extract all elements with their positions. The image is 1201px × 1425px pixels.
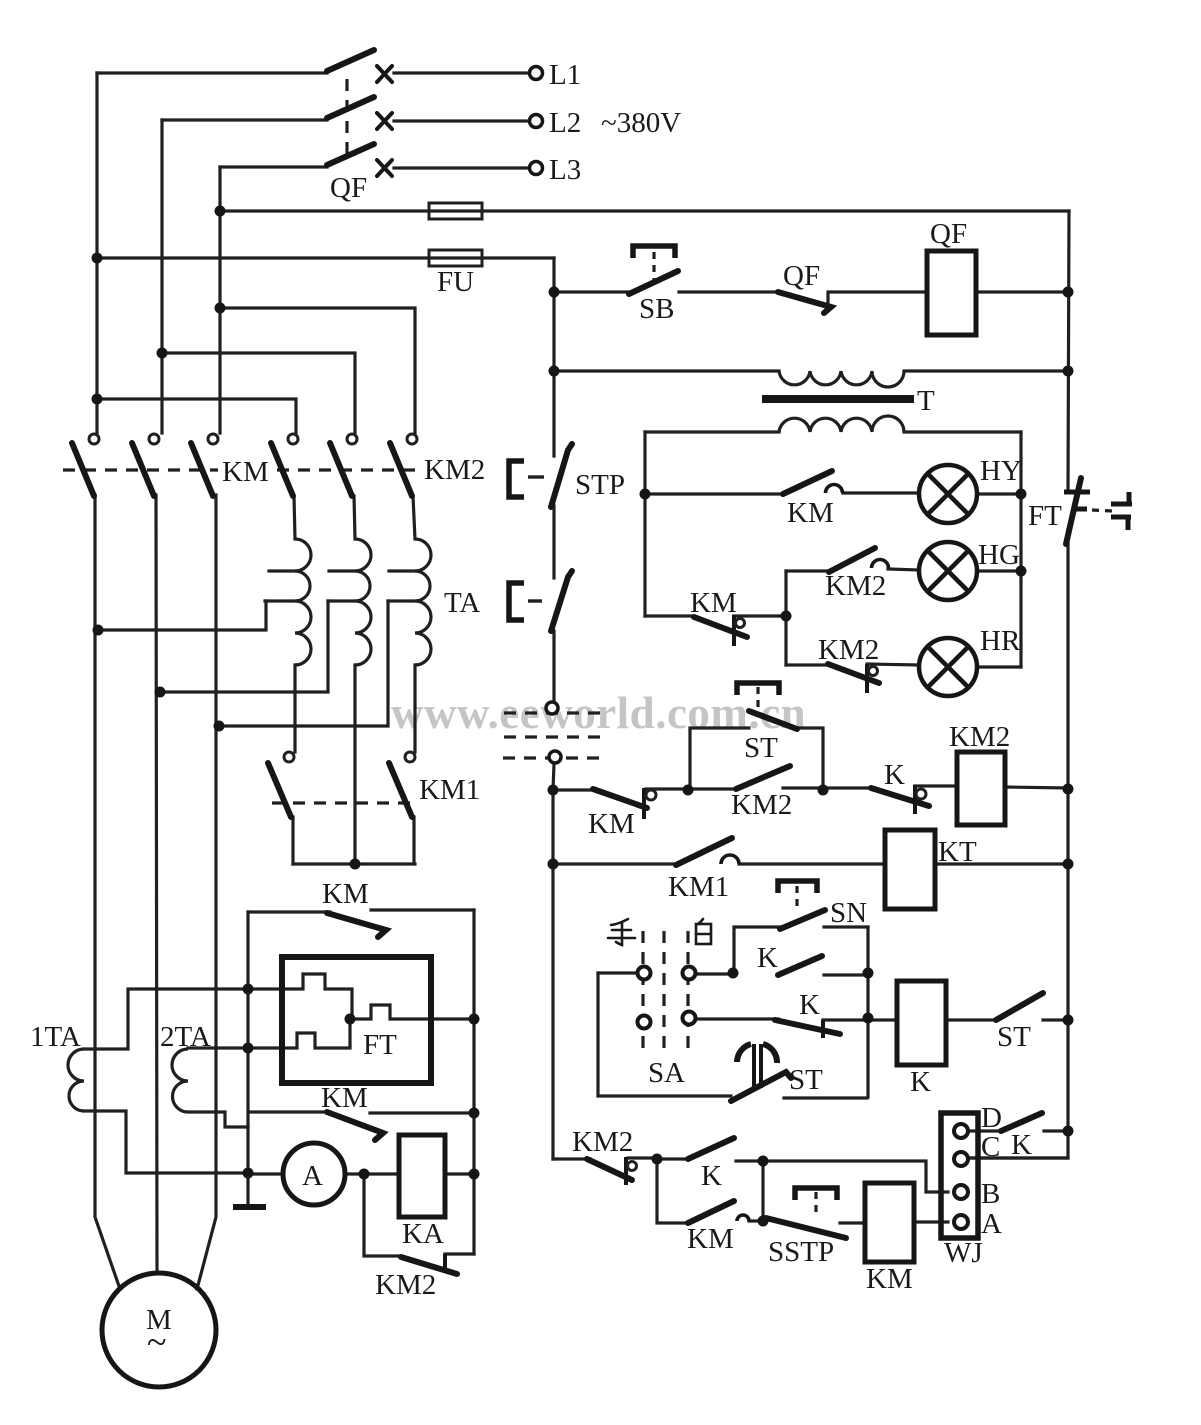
- svg-text:KM2: KM2: [731, 789, 792, 821]
- svg-text:SN: SN: [830, 897, 867, 929]
- svg-text:ST: ST: [744, 732, 778, 764]
- svg-text:A: A: [981, 1208, 1002, 1240]
- svg-text:K: K: [884, 759, 905, 791]
- svg-text:TA: TA: [444, 587, 480, 619]
- svg-text:K: K: [1011, 1129, 1032, 1161]
- svg-text:KM: KM: [690, 587, 737, 619]
- svg-text:QF: QF: [930, 218, 967, 250]
- svg-text:~380V: ~380V: [601, 107, 681, 139]
- svg-text:KT: KT: [938, 836, 977, 868]
- svg-text:SSTP: SSTP: [768, 1236, 834, 1268]
- svg-text:KM1: KM1: [419, 774, 480, 806]
- svg-text:K: K: [910, 1066, 931, 1098]
- svg-text:KM: KM: [588, 808, 635, 840]
- svg-text:2TA: 2TA: [160, 1021, 211, 1053]
- svg-text:FU: FU: [437, 266, 474, 298]
- svg-text:KM: KM: [866, 1263, 913, 1295]
- svg-text:KM2: KM2: [424, 454, 485, 486]
- svg-text:KM2: KM2: [818, 634, 879, 666]
- svg-text:L1: L1: [549, 59, 581, 91]
- svg-text:A: A: [302, 1160, 323, 1192]
- svg-text:T: T: [917, 385, 935, 417]
- svg-text:C: C: [981, 1131, 1000, 1163]
- svg-text:KM: KM: [787, 497, 834, 529]
- svg-text:D: D: [981, 1102, 1002, 1134]
- svg-text:1TA: 1TA: [30, 1021, 81, 1053]
- svg-text:STP: STP: [575, 469, 625, 501]
- svg-text:QF: QF: [783, 260, 820, 292]
- svg-text:KM: KM: [222, 456, 269, 488]
- svg-text:KM: KM: [687, 1223, 734, 1255]
- svg-text:QF: QF: [330, 172, 367, 204]
- svg-text:KM2: KM2: [949, 721, 1010, 753]
- svg-text:KM: KM: [322, 878, 369, 910]
- svg-text:L2: L2: [549, 107, 581, 139]
- svg-text:WJ: WJ: [944, 1237, 983, 1269]
- svg-text:KM2: KM2: [572, 1126, 633, 1158]
- svg-text:SB: SB: [639, 293, 674, 325]
- svg-text:~: ~: [147, 1322, 166, 1362]
- svg-text:KM2: KM2: [825, 570, 886, 602]
- svg-text:SA: SA: [648, 1057, 685, 1089]
- svg-text:HY: HY: [980, 455, 1022, 487]
- svg-text:KM2: KM2: [375, 1269, 436, 1301]
- svg-text:L3: L3: [549, 154, 581, 186]
- svg-text:FT: FT: [363, 1029, 397, 1061]
- svg-text:K: K: [701, 1160, 722, 1192]
- svg-text:HG: HG: [978, 539, 1020, 571]
- svg-text:ST: ST: [789, 1064, 823, 1096]
- svg-text:K: K: [757, 942, 778, 974]
- svg-text:KA: KA: [402, 1218, 444, 1250]
- svg-text:K: K: [799, 989, 820, 1021]
- svg-text:FT: FT: [1028, 500, 1062, 532]
- svg-text:ST: ST: [997, 1021, 1031, 1053]
- svg-text:B: B: [981, 1178, 1000, 1210]
- svg-text:HR: HR: [980, 625, 1021, 657]
- svg-text:KM: KM: [321, 1082, 368, 1114]
- svg-text:KM1: KM1: [668, 871, 729, 903]
